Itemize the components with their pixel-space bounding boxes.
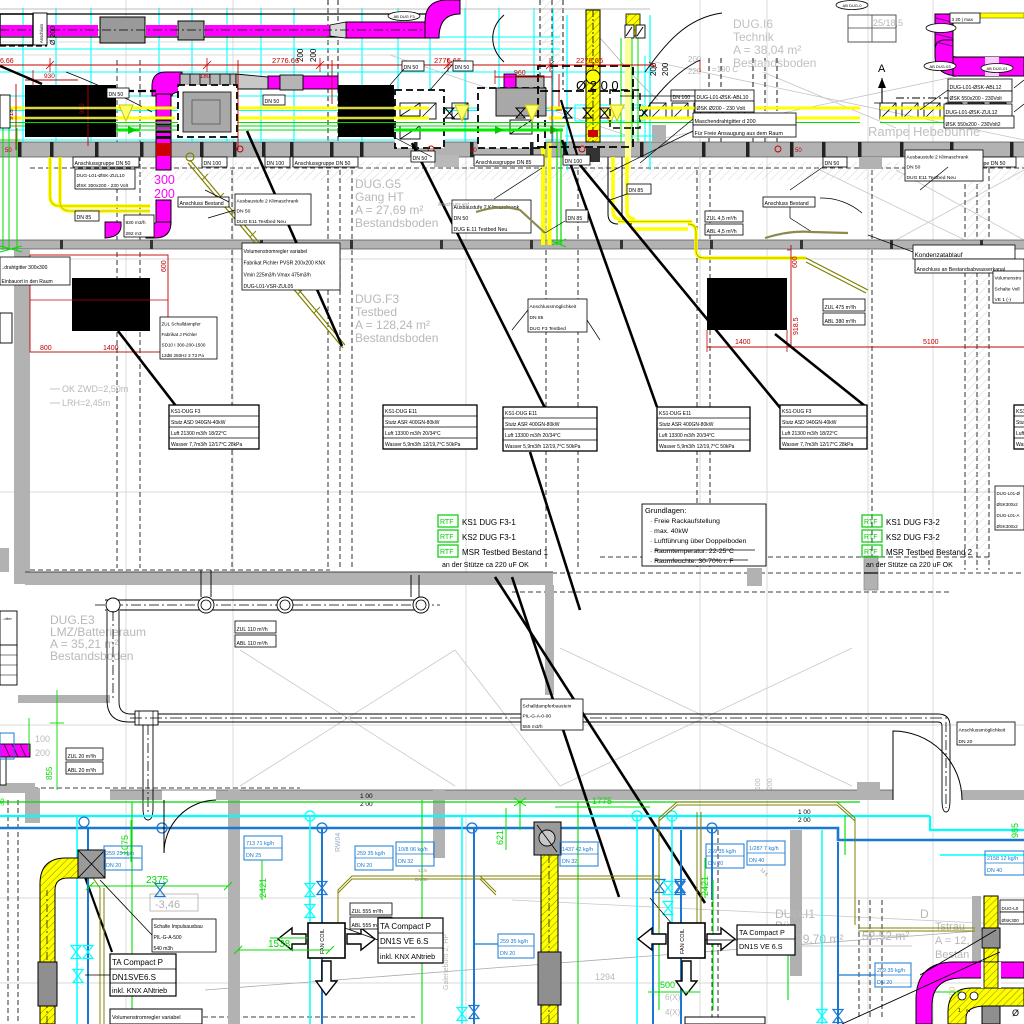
pipe fitting circle b [198, 597, 214, 613]
label ABL 45 [705, 224, 743, 235]
thin leaders labels [620, 95, 695, 97]
black box M2 testbed unit right [707, 278, 787, 330]
label OSK550 v2 [944, 116, 1014, 128]
label ZUL 110 [235, 621, 276, 633]
wall left vertical [14, 249, 30, 584]
svg-text:918.5: 918.5 [793, 317, 800, 335]
svg-text:RTF: RTF [864, 549, 877, 556]
svg-text:Anschlussmöglichkeit: Anschlussmöglichkeit [530, 304, 577, 310]
unit dashed outline right [610, 90, 640, 128]
RTF legend right [862, 515, 882, 527]
svg-text:DUG-L01-VSR-ZUL05: DUG-L01-VSR-ZUL05 [244, 284, 294, 290]
svg-text:Schalldampferbaustein: Schalldampferbaustein [523, 703, 572, 709]
leader short top left [0, 66, 42, 84]
svg-text:Volumenstro: Volumenstro [995, 276, 1022, 282]
svg-text:DN 50: DN 50 [455, 65, 470, 71]
svg-text:713 71 kg/h: 713 71 kg/h [246, 841, 274, 847]
AHU frame A dashed [395, 90, 444, 148]
hatched strip under top wall [130, 162, 965, 180]
svg-text:DUG-L01-ØSK-ABL10: DUG-L01-ØSK-ABL10 [697, 95, 749, 101]
wall divider x=545 above band4 [545, 585, 554, 695]
svg-text:930: 930 [44, 73, 55, 80]
wall band2 ticks [60, 240, 63, 249]
svg-text:Anschlussgruppe DN 85: Anschlussgruppe DN 85 [476, 160, 532, 166]
svg-text:10/8 06 kg/h: 10/8 06 kg/h [398, 847, 428, 853]
svg-text:Anschluss Bestand: Anschluss Bestand [180, 201, 224, 207]
duct elbow up at x425 [425, 0, 460, 38]
left edge box mid [0, 313, 12, 343]
green verticals bottom [131, 802, 133, 1024]
damper circles small [958, 992, 966, 1000]
yellow funnel symbols [119, 105, 133, 121]
svg-text:AB DUG-0: AB DUG-0 [843, 3, 863, 8]
label Anschlussmoeglichkeit mid [528, 299, 587, 332]
svg-text:Rampe: Rampe [868, 124, 910, 139]
svg-text:Anschluss: Anschluss [39, 24, 44, 43]
label DUG-L01-ABL12 [948, 79, 1012, 91]
svg-text:180: 180 [200, 74, 211, 80]
svg-text:DN 50: DN 50 [415, 877, 428, 882]
label Anschluss Kanal [915, 259, 1024, 273]
pipe stub up x204 [200, 570, 202, 597]
svg-text:DUG-L01-ØSK-ZUL10: DUG-L01-ØSK-ZUL10 [77, 173, 125, 179]
RTF legend left [438, 515, 458, 527]
blue box 259 fc1 [498, 934, 534, 958]
svg-text:Bestandsboden: Bestandsboden [355, 216, 438, 230]
wall column x=433 [433, 790, 445, 858]
pipe P2 horizontal long [158, 713, 938, 715]
yellow horizontal run mid [618, 220, 692, 224]
svg-text:SD10 I 300-200-1500: SD10 I 300-200-1500 [162, 343, 206, 348]
svg-text:TA Compact P: TA Compact P [112, 958, 163, 967]
svg-text:DN 50: DN 50 [413, 156, 428, 162]
label Anschlussgruppe right [948, 157, 1016, 167]
svg-text:DUG-L01-A: DUG-L01-A [997, 513, 1020, 518]
svg-text:Luft 21300 m3/h 18/22°C: Luft 21300 m3/h 18/22°C [782, 431, 838, 437]
green dim 855 [56, 690, 58, 790]
svg-text:DN 25: DN 25 [246, 853, 261, 859]
svg-text:Fabrikat J Pichler: Fabrikat J Pichler [162, 332, 198, 337]
svg-text:RTF: RTF [440, 534, 453, 541]
pipe fitting circle d [413, 597, 429, 613]
svg-text:DN 20: DN 20 [500, 951, 515, 957]
svg-text:1 00: 1 00 [360, 793, 373, 800]
label DUG-L01 2row [75, 169, 135, 189]
svg-text:DN 85: DN 85 [568, 216, 583, 222]
leader diagonal L3 [562, 140, 657, 407]
green thick highlight bar [75, 129, 140, 132]
svg-text:200: 200 [35, 748, 50, 758]
wall pier bottom door [857, 782, 880, 800]
fan symbols row [445, 108, 454, 118]
svg-text:ABL 4,5 m³/h: ABL 4,5 m³/h [707, 229, 737, 235]
svg-text:KS2 DUG F3-2: KS2 DUG F3-2 [886, 533, 940, 542]
red vertical dims [237, 60, 239, 150]
blue box 1437 [560, 842, 598, 866]
svg-text:Anschlussgruppe DN 50: Anschlussgruppe DN 50 [295, 161, 351, 167]
svg-text:DN1S VE 6.S: DN1S VE 6.S [739, 942, 783, 951]
svg-text:ABL 20 m³/h: ABL 20 m³/h [68, 768, 97, 774]
table KS1-DUG F3 no5 [780, 405, 867, 449]
svg-text:· Freie Rackaufstellung: · Freie Rackaufstellung [650, 518, 720, 525]
label ABL 110 [235, 635, 276, 647]
supply duct run top - outline [0, 13, 427, 15]
svg-text:DN 50: DN 50 [265, 99, 280, 105]
green main horizontal [0, 801, 860, 803]
red dim frame left testbed [30, 255, 168, 352]
door arc top right small [820, 198, 862, 213]
svg-text:1538: 1538 [268, 939, 291, 950]
duct row2 elbow magenta [152, 72, 182, 96]
svg-text:TA Compact P: TA Compact P [380, 922, 431, 931]
valve symbols bottom [305, 884, 315, 897]
svg-text:259 35 kg/h: 259 35 kg/h [500, 939, 528, 945]
red dim 950 left [32, 70, 34, 86]
svg-text:600: 600 [792, 256, 799, 268]
label right edge DUG-L01 4row [995, 486, 1024, 530]
svg-text:Anschluss Bestand: Anschluss Bestand [765, 201, 809, 207]
label drahtgitter left [0, 257, 70, 285]
svg-text:ØSK300: ØSK300 [1002, 918, 1020, 923]
svg-text:PIL-G-A-0-00: PIL-G-A-0-00 [523, 714, 552, 720]
green dim 1775 [555, 806, 650, 808]
svg-text:A = 27,69 m²: A = 27,69 m² [355, 203, 423, 217]
label Volumenstro right edge [993, 271, 1024, 303]
olive circle takeoff [186, 153, 194, 161]
svg-text:Galeriebüro 2, HP: Galeriebüro 2, HP [443, 934, 450, 990]
duct row2 bellows segment [180, 74, 236, 88]
green dim 2421 right vertical [704, 858, 706, 898]
gray block below band [434, 155, 459, 167]
red dim 960 [495, 76, 552, 78]
label DN 50 row [411, 151, 435, 162]
blue box 259 mid [355, 846, 393, 870]
yellow duct riser [586, 10, 600, 142]
wall band tick marks [18, 142, 22, 157]
leader diagonal L9 bottom left [85, 877, 112, 952]
svg-text:DUG.G5: DUG.G5 [355, 177, 401, 191]
svg-text:KS1-DUG E11: KS1-DUG E11 [505, 411, 537, 417]
svg-text:Wasser 5,9m3/h 12/19,7°C 50kPa: Wasser 5,9m3/h 12/19,7°C 50kPa [659, 444, 735, 450]
label DN 100 right grp [671, 90, 695, 101]
svg-text:Ausbaustufe 2 Klimaschrank: Ausbaustufe 2 Klimaschrank [907, 154, 970, 160]
svg-text:DN 50: DN 50 [454, 216, 469, 222]
pipe fitting circle a [106, 598, 120, 612]
svg-text:Ø: Ø [1012, 1008, 1019, 1018]
svg-text:DN 100: DN 100 [267, 161, 285, 167]
left edge box bottom [0, 755, 6, 785]
pipe fitting circle c [277, 597, 293, 613]
blue box partial left edge [0, 733, 14, 759]
table KS1-DUG F3 no1 [169, 405, 259, 449]
duct magenta segments [0, 25, 33, 36]
black box M1 testbed unit left [72, 278, 150, 331]
yellow duct mid riser [541, 855, 558, 1024]
svg-text:Luft 13300 m3/h 20/34°C: Luft 13300 m3/h 20/34°C [1016, 431, 1024, 437]
yellow drops x543 [541, 143, 545, 245]
leader diagonal L6 box2 [775, 334, 865, 406]
svg-text:A = 38,04 m²: A = 38,04 m² [733, 43, 801, 57]
duct fitting gray [178, 21, 204, 40]
svg-text:800: 800 [40, 345, 52, 352]
label DN 50 drop b [263, 95, 285, 105]
gray flex curve [600, 38, 658, 100]
table KS1 partial right edge [1014, 405, 1024, 449]
svg-text:Luft 21300 m3/h 18/22°C: Luft 21300 m3/h 18/22°C [171, 431, 227, 437]
svg-text:ABL 380 m³/h: ABL 380 m³/h [825, 319, 857, 325]
svg-text:Maschendrahtgitter d 200: Maschendrahtgitter d 200 [695, 119, 756, 125]
svg-text:6(X): 6(X) [665, 993, 680, 1002]
svg-text:DN 50: DN 50 [825, 161, 840, 167]
svg-text:an der Stütze ca 220 uF OK: an der Stütze ca 220 uF OK [442, 562, 529, 569]
yellow pipe pair left [50, 157, 150, 206]
white gap on magenta for riser [985, 57, 999, 76]
svg-text:Bestan: Bestan [935, 949, 969, 961]
svg-text:DUG F3 Testbed: DUG F3 Testbed [530, 326, 567, 332]
svg-text:5100: 5100 [923, 339, 939, 346]
svg-text:VE 1 (-): VE 1 (-) [995, 297, 1012, 303]
label Ausbaustufe no3 [905, 150, 983, 181]
svg-text:259 35 kg/h: 259 35 kg/h [708, 849, 736, 855]
leader diagonal L2b [530, 452, 580, 610]
duct row2 transition cone [236, 74, 268, 89]
cyan riser grid verticals [22, 8, 24, 142]
leader diagonal L2 long [412, 143, 545, 408]
white gap for yellow riser [981, 962, 1001, 988]
blue box 10/8 [396, 842, 434, 866]
label Volumenstromregler bottom left [110, 1009, 202, 1024]
label TA Compact fc2 [737, 925, 795, 955]
small boxes row y100 [341, 103, 357, 119]
green supply lines top-mid [620, 38, 622, 142]
svg-text:25/18,5: 25/18,5 [873, 18, 903, 28]
thin leader bottom right [842, 952, 1000, 1024]
label Schalldaempferbausteine [521, 699, 583, 730]
fan coil unit 2 [668, 923, 705, 958]
svg-text:3 20 | max: 3 20 | max [952, 17, 974, 22]
svg-text:DN 20: DN 20 [106, 863, 121, 869]
svg-text:Stutz ASR 400GN-80kW: Stutz ASR 400GN-80kW [659, 422, 714, 428]
svg-text:AB DUG-03: AB DUG-03 [929, 64, 951, 69]
green line over boxes [22, 122, 118, 124]
svg-text:4(X): 4(X) [665, 1008, 680, 1017]
label DN 50 top a [402, 61, 424, 71]
blue main horizontal [0, 827, 825, 830]
svg-text:DN 20: DN 20 [357, 863, 372, 869]
duct label box vertical [33, 13, 47, 45]
table KS1-DUG E11 no4 [657, 407, 750, 451]
oval AB DUG-01 [981, 64, 1013, 73]
label DN 100 no2 [265, 157, 290, 167]
cyan second right [940, 854, 1024, 856]
svg-text:DUG-L01-Ø: DUG-L01-Ø [997, 491, 1021, 496]
olive diagonal left to VSR [190, 160, 345, 345]
svg-text:Wasser 7,7m3/h 12/17°C 28kPa: Wasser 7,7m3/h 12/17°C 28kPa [171, 442, 243, 448]
svg-text:Grundlagen:: Grundlagen: [645, 506, 686, 515]
blue box 259 br [875, 963, 911, 987]
svg-text:Kondenzatablauf: Kondenzatablauf [915, 252, 963, 259]
green header lines [0, 122, 860, 124]
leader diagonal L1 [247, 131, 342, 346]
yellow duct mid coupling [538, 952, 561, 1005]
svg-text:· Luftführung über Doppelbode: · Luftführung über Doppelboden [650, 538, 747, 545]
duct silencer gray [100, 17, 145, 43]
flex duct curve [493, 15, 504, 62]
svg-text:1075: 1075 [120, 835, 130, 855]
green dim 1075 vertical [130, 820, 132, 862]
red dim right testbed [790, 245, 792, 347]
leader anschluss right [789, 207, 791, 218]
svg-text:1/287 7 kg/h: 1/287 7 kg/h [749, 846, 779, 852]
svg-text:Gang HT: Gang HT [355, 190, 404, 204]
blue box 1/287 [747, 841, 785, 865]
svg-text:KS1-DUG E11: KS1-DUG E11 [1016, 409, 1024, 415]
svg-text:ZUL Schalldämpfer: ZUL Schalldämpfer [162, 322, 202, 327]
magenta elbow disc [105, 222, 121, 238]
svg-text:KS1-DUG E11: KS1-DUG E11 [659, 411, 691, 417]
pale yellow drop x624 [625, 38, 631, 170]
svg-text:DN 85: DN 85 [77, 215, 92, 221]
svg-text:Luft 13300 m3/h 20/34°C: Luft 13300 m3/h 20/34°C [505, 433, 561, 439]
svg-text:D: D [920, 907, 929, 921]
svg-text:2276.66: 2276.66 [576, 56, 603, 65]
svg-text:MSR Testbed Bestand 2: MSR Testbed Bestand 2 [886, 548, 973, 557]
svg-text:555 m3/h: 555 m3/h [523, 724, 543, 730]
svg-text:DUG-L01-ØSK-ZUL12: DUG-L01-ØSK-ZUL12 [946, 110, 998, 116]
duct row2 magenta c [303, 76, 338, 89]
svg-text:500: 500 [660, 980, 675, 990]
pipe V1 down [106, 611, 108, 702]
black box B3 [338, 85, 394, 137]
svg-text:Ø 200: Ø 200 [50, 26, 57, 45]
green risers far left [2, 128, 4, 250]
cyan main horizontal [0, 815, 930, 817]
left edge box E3 a [0, 611, 17, 647]
svg-text:TA Compact P: TA Compact P [739, 928, 785, 937]
svg-text:2421: 2421 [700, 876, 710, 896]
faint grid lines [125, 0, 127, 1024]
svg-text:2776.66: 2776.66 [272, 56, 299, 65]
wall column x=228 [228, 790, 240, 1024]
door arc left [164, 800, 216, 853]
wall DUG.E3 bottom [18, 695, 110, 703]
svg-text:Stutz ASD 940GN-40kW: Stutz ASD 940GN-40kW [171, 420, 226, 426]
svg-text:DUG.F3: DUG.F3 [355, 292, 399, 306]
magenta duct top right riser [935, 14, 953, 56]
svg-text:Bestandsboden: Bestandsboden [355, 331, 438, 345]
blue thick vertical x681 [680, 830, 682, 1024]
svg-text:ØSK 550x200 - 230Volt: ØSK 550x200 - 230Volt [950, 96, 1003, 102]
thin gray aux horizontals [0, 41, 560, 43]
label ABL 380 [823, 313, 865, 325]
svg-text:Stutz ASD 940GN-40kW: Stutz ASD 940GN-40kW [782, 420, 837, 426]
svg-text:DN1S VE 6.S: DN1S VE 6.S [380, 937, 428, 946]
yellow duct left elbow [40, 858, 78, 1024]
blue stub lines [838, 974, 875, 976]
svg-text:259 35 kg/h: 259 35 kg/h [357, 851, 385, 857]
heavy dashed duct centerline row2 [78, 90, 156, 92]
svg-text:DN 100: DN 100 [565, 159, 583, 165]
svg-text:50: 50 [795, 148, 802, 154]
svg-text:A = 128,24 m²: A = 128,24 m² [355, 318, 430, 332]
svg-text:DUG.I6: DUG.I6 [733, 17, 773, 31]
duct row2 gray piece x516 [516, 76, 544, 90]
svg-text:Fabrikat Pichler PVSR 200x200: Fabrikat Pichler PVSR 200x200 KNX [244, 261, 327, 267]
olive pipe condensate [765, 232, 848, 238]
label DN 50 drop a [107, 88, 129, 98]
svg-text:DUG-L0: DUG-L0 [1002, 906, 1019, 911]
duct row2 magenta a [268, 76, 280, 89]
leader diagonal L7 lower long [495, 577, 705, 903]
svg-text:35: 35 [0, 798, 6, 806]
label ZUL 20 [66, 748, 103, 760]
svg-text:DUG E.11 Testbed Neu: DUG E.11 Testbed Neu [454, 227, 508, 233]
magenta duct top right elbow [935, 40, 960, 76]
svg-text:Stutz ASR 400GN-80kW: Stutz ASR 400GN-80kW [385, 420, 440, 426]
svg-text:ØSK300x2: ØSK300x2 [997, 502, 1019, 507]
svg-text:· Raumtemperatur: 22-25°C: · Raumtemperatur: 22-25°C [650, 547, 734, 555]
svg-text:RTF: RTF [440, 549, 453, 556]
svg-text:KS1 DUG F3-2: KS1 DUG F3-2 [886, 518, 940, 527]
label DN 85 right a [627, 184, 651, 194]
svg-text:AB DUG F3: AB DUG F3 [393, 14, 415, 19]
green dim 2375 [90, 885, 228, 887]
top-left equipment box [0, 14, 33, 45]
red vertical at unit [558, 74, 560, 110]
blue box 713 [244, 836, 282, 860]
yellow duct stub with dampers [626, 14, 640, 36]
svg-text:RTF: RTF [440, 519, 453, 526]
svg-text:inkl. KNX ANtrieb: inkl. KNX ANtrieb [380, 952, 435, 961]
svg-text:100: 100 [755, 778, 762, 790]
yellow header pipes horizontal [0, 107, 28, 110]
svg-text:A: A [878, 63, 886, 75]
olive drop pair to fan coil 2 [696, 812, 698, 928]
svg-text:ZUL 110 m³/h: ZUL 110 m³/h [237, 627, 268, 633]
svg-text:Volumenstromregler variabel: Volumenstromregler variabel [244, 249, 308, 255]
svg-text:Bestandsboden: Bestandsboden [733, 56, 816, 70]
svg-text:Anschlussmöglichkeit: Anschlussmöglichkeit [959, 728, 1006, 734]
cyan unit verticals [566, 15, 568, 170]
svg-text:Wasser 5,9m3/h 12/19,7°C 50kPa: Wasser 5,9m3/h 12/19,7°C 50kPa [1016, 442, 1024, 448]
damper box mid [534, 822, 561, 855]
svg-text:DN 40: DN 40 [987, 868, 1002, 874]
AHU unit B2 gray dashed [178, 85, 237, 137]
svg-text:ØSK Ø200 - 230 Volt: ØSK Ø200 - 230 Volt [697, 106, 746, 112]
svg-text:A = 12,: A = 12, [935, 935, 970, 947]
yellow strip top right [980, 13, 1024, 18]
yellow duct left coupling [38, 962, 57, 1006]
svg-text:1400: 1400 [103, 345, 119, 352]
svg-text:50: 50 [470, 148, 477, 154]
svg-text:Schalte Impulsausbau: Schalte Impulsausbau [154, 924, 203, 930]
svg-text:200: 200 [767, 778, 774, 790]
svg-text:FAN COIL: FAN COIL [680, 929, 686, 954]
svg-text:DUG E11 Testbed Neu: DUG E11 Testbed Neu [237, 219, 287, 225]
red baseline bottom right [820, 346, 1024, 348]
svg-text:KS2 DUG F3-1: KS2 DUG F3-1 [462, 533, 516, 542]
blue box 2158 [985, 851, 1024, 875]
label Fuer Freie [693, 125, 796, 137]
magenta stub left room [0, 744, 30, 757]
svg-text:KS1-DUG F3: KS1-DUG F3 [171, 409, 201, 415]
svg-text:MSR Testbed Bestand 1: MSR Testbed Bestand 1 [462, 548, 549, 557]
green dim 621 vertical [505, 808, 507, 850]
fan coil unit 1 [308, 923, 345, 958]
label Maschendraht [693, 113, 796, 125]
label ZUL 475 [823, 299, 865, 311]
black dash top right piece [896, 97, 948, 99]
